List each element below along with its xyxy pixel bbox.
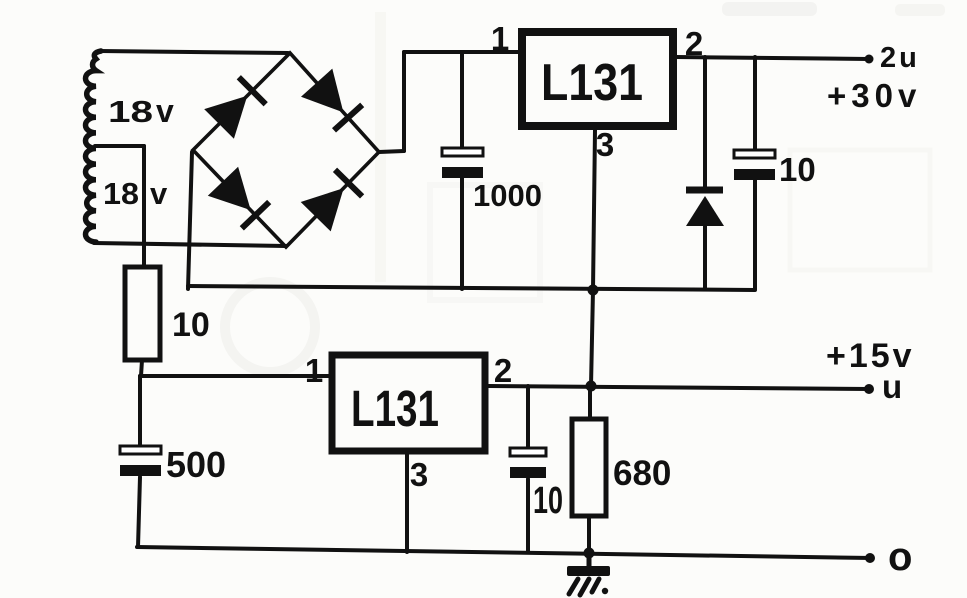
wire: diode D5 bottom lead: [703, 226, 707, 289]
svg-text:10: 10: [779, 151, 816, 188]
wire: U2 pin 2 output to u terminal: [488, 386, 869, 389]
wire: resistor R1 bottom lead: [141, 360, 142, 376]
capacitor C2 (10uF): [734, 150, 775, 180]
wire: bridge left corner drop: [188, 152, 192, 289]
ground symbol: [567, 554, 610, 595]
svg-text:L131: L131: [541, 54, 643, 112]
capacitor C3 (500uF): [120, 446, 161, 476]
wire: coil top to bridge top corner: [99, 51, 288, 53]
svg-text:500: 500: [166, 444, 226, 485]
svg-text:2: 2: [494, 352, 512, 389]
wire: capacitor C2 bottom lead: [753, 180, 757, 289]
wire: middle rail (bridge negative): [188, 286, 755, 290]
regulator U1 L131: [522, 32, 673, 126]
wire: center tap horizontal: [95, 144, 144, 148]
svg-text:v: v: [150, 176, 168, 211]
wire: U2 pin 3 down to 0v rail: [405, 454, 409, 552]
svg-text:2u: 2u: [880, 42, 920, 74]
wire: capacitor C1 bottom lead: [460, 178, 464, 289]
diode D3 (bridge bottom-left): [208, 167, 269, 229]
wire: U1 pin 2 output to 2u terminal: [676, 57, 869, 59]
svg-text:+30v: +30v: [827, 77, 921, 114]
diode D1 (bridge top-left): [204, 77, 266, 139]
diode D4 (bridge bottom-right): [301, 170, 362, 232]
junction node: U1 pin3 line with middle rail: [588, 285, 599, 296]
svg-text:2: 2: [685, 25, 703, 62]
resistor R1: [125, 267, 160, 360]
wire: bridge right corner to riser: [379, 151, 404, 152]
wire: capacitor C4 top lead: [526, 386, 530, 448]
wire: capacitor C3 bottom lead: [138, 477, 140, 547]
svg-text:18: 18: [108, 94, 153, 129]
wire: resistor R2 bottom lead to ground: [587, 516, 591, 567]
terminal node: u output: [864, 384, 874, 394]
capacitor C4 (10uF): [510, 448, 546, 478]
wire: +15v input wire to U2 pin 1: [140, 374, 331, 378]
svg-text:1: 1: [491, 20, 509, 57]
wire: capacitor C1 top lead: [460, 52, 464, 148]
svg-text:o: o: [888, 535, 912, 579]
bridge rectifier diamond outline: [193, 53, 379, 247]
svg-text:18: 18: [103, 176, 139, 211]
scan ghost artifacts (decorative): [225, 2, 945, 372]
wire: capacitor C2 top lead: [753, 57, 757, 150]
svg-text:3: 3: [596, 126, 614, 163]
capacitor C1 (1000uF): [442, 148, 483, 178]
svg-text:10: 10: [533, 480, 563, 522]
svg-text:u: u: [882, 368, 902, 405]
diode D2 (bridge top-right): [301, 69, 362, 131]
wire: coil bottom to bridge bottom corner: [94, 243, 286, 246]
terminal node: 2u output: [865, 55, 874, 64]
svg-text:680: 680: [613, 454, 671, 493]
svg-text:L131: L131: [351, 380, 439, 437]
wire: diode D5 top lead: [703, 57, 707, 187]
wire: riser up to +raw rail: [402, 52, 406, 151]
wire: capacitor C4 bottom lead: [526, 479, 530, 552]
terminal node: o output: [865, 553, 875, 563]
wire: center tap vertical down to resistor R1: [142, 146, 146, 267]
transformer primary/secondary coil winding: [85, 51, 101, 242]
wire: raw rail to U1 pin 1: [404, 50, 519, 54]
svg-text:1000: 1000: [473, 178, 542, 213]
regulator U2 L131: [332, 355, 485, 451]
svg-text:10: 10: [172, 306, 210, 344]
wire: bottom 0v rail: [137, 547, 872, 558]
wire: capacitor C3 top lead: [138, 376, 142, 446]
wire: resistor R2 top lead: [588, 387, 592, 419]
svg-text:3: 3: [410, 456, 428, 493]
junction node: U1 pin3 line with +15v rail: [586, 381, 597, 392]
svg-text:1: 1: [305, 352, 323, 389]
svg-text:v: v: [156, 93, 174, 129]
resistor R2: [572, 419, 606, 516]
wire: U1 pin 3 vertical down through rails: [591, 130, 595, 386]
diode D5 (protection, across U1): [686, 190, 724, 226]
junction node: R2/ground on 0v rail: [584, 548, 595, 559]
